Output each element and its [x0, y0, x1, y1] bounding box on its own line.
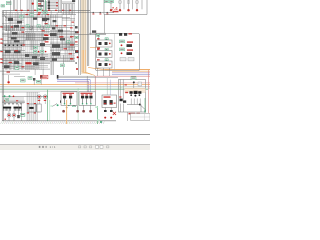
svg-text:7.4: 7.4: [112, 6, 118, 11]
svg-text:1 / 1: 1 / 1: [50, 145, 56, 149]
